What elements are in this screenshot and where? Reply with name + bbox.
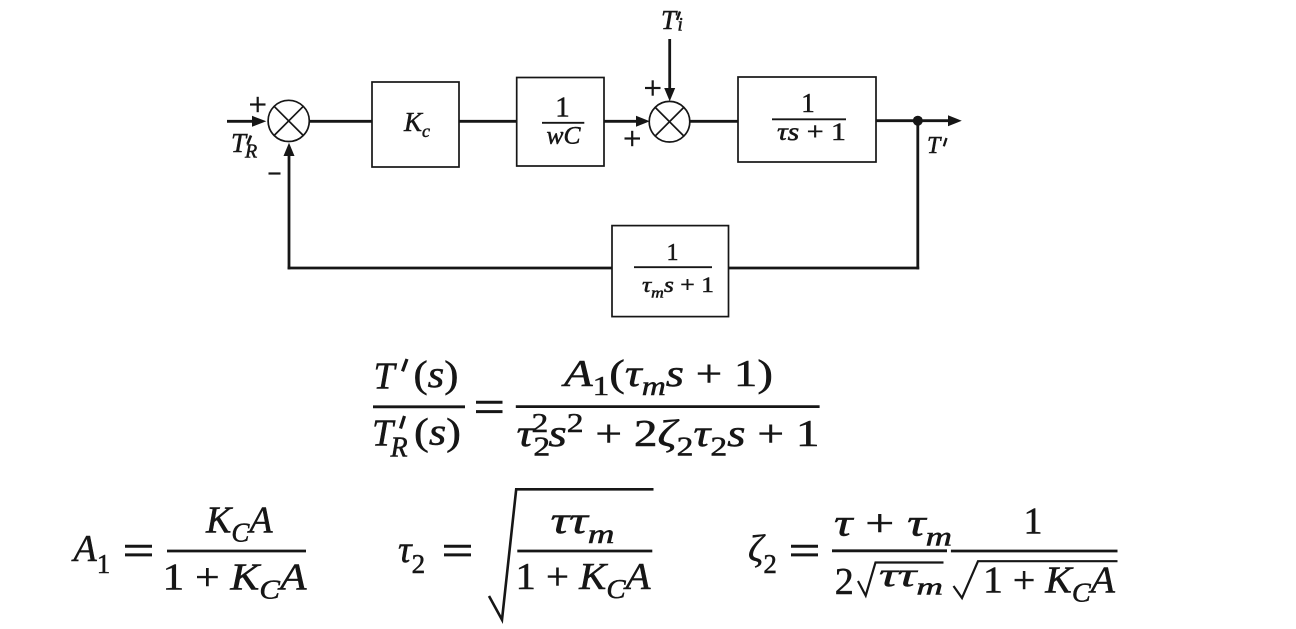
node dot takeoff point xyxy=(913,116,923,126)
equation t2 = sqrt(t tm/(1+KcA)) xyxy=(398,489,654,619)
equation A1 = KcA/(1+KcA) xyxy=(71,500,308,605)
svg-text:(s): (s) xyxy=(414,412,461,454)
block 1/wC xyxy=(517,78,604,167)
eqA fraction bar xyxy=(167,550,306,553)
svg-text:T: T xyxy=(374,356,398,398)
eqB equals sign xyxy=(444,546,471,555)
svg-text:T: T xyxy=(661,5,678,35)
eq1 equals sign xyxy=(476,402,503,411)
svg-text:R: R xyxy=(390,433,408,464)
svg-text:τs + 1: τs + 1 xyxy=(777,119,846,146)
equation 1: T'(s)/T'R(s) = A1(tm s+1)/(t2^2 s^2+2 z2 t2 s+1) xyxy=(372,353,820,464)
eqC radical in denominator xyxy=(954,561,1118,598)
svg-text:1 + KCA: 1 + KCA xyxy=(983,560,1116,608)
wire input arrow into summer S1 xyxy=(227,116,266,127)
eqC fraction bar 1 xyxy=(832,549,947,552)
summing junction S1 xyxy=(268,100,309,141)
svg-text:A1(τms + 1): A1(τms + 1) xyxy=(560,353,773,401)
svg-text:1: 1 xyxy=(801,88,815,118)
summing junction S2 xyxy=(649,101,690,142)
wire 1/wC to summer S2 with arrowhead xyxy=(604,116,650,127)
svg-text:1: 1 xyxy=(555,92,570,124)
svg-text:1 + KCA: 1 + KCA xyxy=(516,556,652,604)
eqC equals sign xyxy=(791,546,818,555)
plus sign at S2 left input xyxy=(625,131,641,146)
equation z2 = (t+tm)/(2 sqrt(t tm)) * 1/sqrt(1+KcA) xyxy=(748,501,1118,608)
wire S2 to block 1/(ts+1) xyxy=(690,120,738,123)
wire block3 to output arrow xyxy=(876,115,962,126)
svg-text:wC: wC xyxy=(547,123,581,150)
wire feedback up arrow into S1 bottom xyxy=(284,143,295,270)
eqB radical sign xyxy=(489,489,654,619)
wire S1 to block Kc xyxy=(309,120,372,123)
block Kc xyxy=(372,82,459,167)
eqA equals sign xyxy=(125,546,152,555)
eq1 fraction bar left xyxy=(373,405,465,408)
svg-text:1: 1 xyxy=(1024,501,1043,543)
svg-text:(s): (s) xyxy=(414,354,459,396)
svg-text:τ22s2 + 2ζ2τ2s + 1: τ22s2 + 2ζ2τ2s + 1 xyxy=(517,408,820,462)
svg-text:R: R xyxy=(244,141,257,163)
svg-text:i: i xyxy=(678,15,683,36)
plus sign at S1 input xyxy=(250,97,266,112)
wire takeoff down to feedback line xyxy=(916,121,919,270)
svg-text:1 + KCA: 1 + KCA xyxy=(163,557,308,605)
plus sign at S2 top input xyxy=(645,80,661,95)
eq1 fraction bar right xyxy=(516,405,820,408)
minus sign at S1 feedback input xyxy=(269,172,281,174)
block 1/(tm s+1) xyxy=(612,226,729,317)
eqC fraction bar 2 xyxy=(951,550,1118,553)
wire Kc to block 1/wC xyxy=(459,120,517,123)
eqB inner fraction bar xyxy=(517,550,652,553)
wire Ti' down arrow into S2 xyxy=(664,39,675,101)
block 1/(ts+1) xyxy=(738,77,876,162)
wire feedback horizontal line xyxy=(288,267,920,270)
svg-text:1: 1 xyxy=(667,240,679,266)
svg-text:T: T xyxy=(927,133,942,159)
svg-text:2: 2 xyxy=(835,561,854,603)
